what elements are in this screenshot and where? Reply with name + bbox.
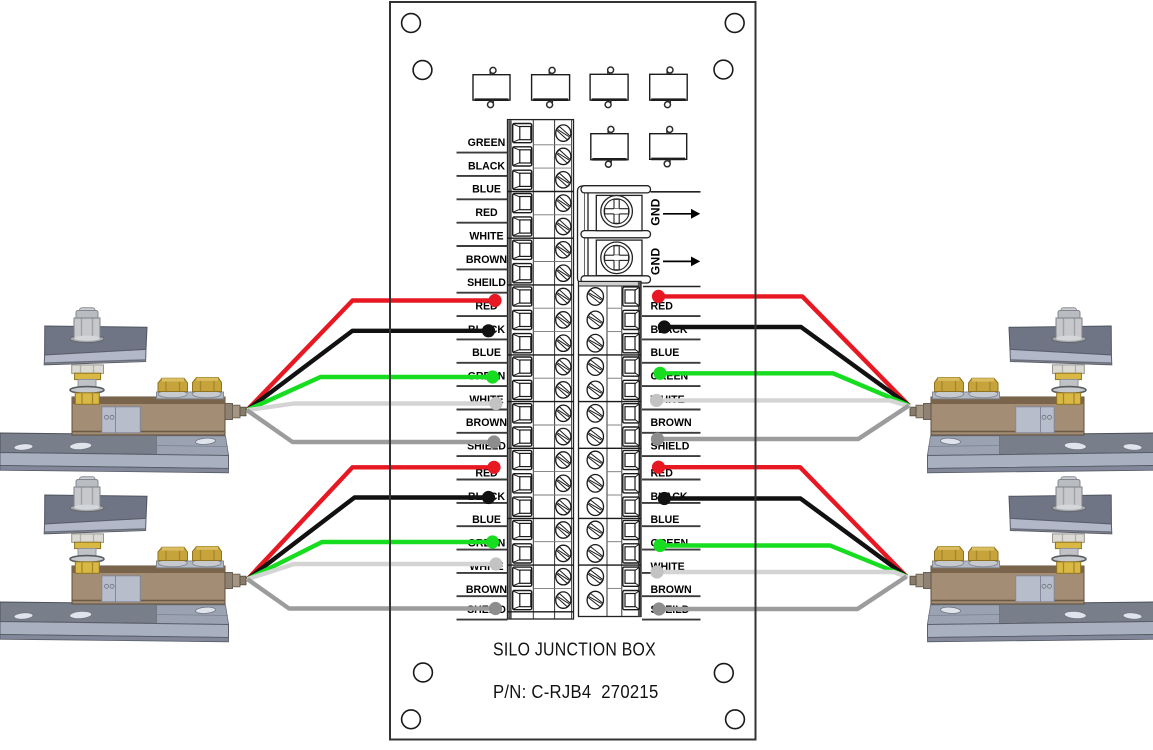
node label BLACK (left row 9) [457,324,508,340]
terminal TB1-12 clamp [513,380,532,399]
svg-text:BROWN: BROWN [651,417,692,429]
node label SHIELD (right row 14) [642,441,701,457]
component box K6 [650,126,687,166]
terminal TB1-5 screw [556,218,571,234]
node label RED (right row 8) [642,301,701,317]
node label GREEN (right row 11) [642,371,701,387]
terminal TB1-13 screw [556,405,571,421]
wire LC4 GREEN to TB2-11 [653,539,906,577]
load cell LC1 (upper left) [0,308,246,473]
wire LC4 RED to TB2-8 [652,461,907,577]
wire LC3 WHITE to TB2-5 [650,394,911,407]
terminal TB2-1 screw [587,288,603,306]
terminal TB1-2 clamp [513,147,532,166]
wire LC3 SHIELD to TB2-7 [651,406,909,446]
svg-text:BROWN: BROWN [466,417,507,429]
component box K2 [532,67,570,107]
terminal TB1-6 screw [556,242,571,258]
node label RED (left row 8) [457,301,508,317]
svg-text:BLUE: BLUE [472,184,501,196]
node label BROWN (left row 13) [457,417,508,433]
terminal TB1-10 clamp [513,334,532,353]
svg-text:BLUE: BLUE [651,347,680,359]
svg-text:BLACK: BLACK [468,160,505,172]
component box K3 [590,67,628,108]
terminal TB2-6 clamp [623,404,640,423]
mounting hole lower-right inner [714,664,733,683]
terminal TB2-6 screw [587,405,603,423]
node label BROWN (left row 6) [457,254,508,270]
terminal TB1-5 clamp [513,217,532,236]
terminal TB2-10 screw [587,498,603,516]
terminal TB1-10 screw [556,335,571,351]
terminal TB2-12 clamp [623,544,640,563]
node label BLACK (left row 16) [457,491,508,503]
wire gnd rail top lead [651,191,701,193]
wire LC3 RED to TB2-1 [652,290,909,406]
node label BLACK (right row 16) [642,491,701,503]
load cell LC4 (lower right) [910,477,1153,642]
terminal TB2-4 screw [587,358,603,376]
terminal TB1-7 clamp [513,264,532,283]
terminal TB2-4 clamp [623,357,640,376]
mounting hole bottom-left corner [402,710,421,729]
node label WHITE (right row 19) [642,561,701,573]
terminal TB2-9 screw [587,475,603,493]
load cell LC2 (lower left) [0,477,246,642]
junction box panel outline [390,2,756,740]
terminal TB1-14 clamp [513,427,532,446]
terminal TB2-11 clamp [623,520,640,539]
terminal TB1-8 screw [556,288,571,304]
terminal TB2-1 clamp [623,287,640,306]
svg-text:BLUE: BLUE [472,347,501,359]
svg-text:GND: GND [649,198,663,226]
node label WHITE (right row 12) [642,394,701,410]
terminal TB1-9 clamp [513,310,532,329]
terminal TB2-13 clamp [623,567,640,586]
svg-text:SHEILD: SHEILD [467,277,506,289]
node label BLUE (right row 17) [642,514,701,526]
node label GREEN (left row 11) [457,371,508,387]
mounting hole upper-left inner [413,61,432,80]
terminal TB1-14 screw [556,428,571,444]
node label SHEILD (right row 21) [642,604,701,620]
node label BROWN (right row 20) [642,584,701,596]
terminal strip TB2 (right, 14 terminals) [579,282,642,617]
component box K1 [473,67,510,107]
terminal TB1-15 screw [556,452,571,468]
terminal TB1-12 screw [556,382,571,398]
terminal TB2-12 screw [587,545,603,563]
terminal TB2-3 clamp [623,334,640,353]
terminal TB1-16 clamp [513,474,532,493]
node label BLUE (left row 17) [457,514,508,526]
wire LC3 GREEN to TB2-4 [653,367,909,406]
terminal TB2-2 screw [587,311,603,329]
node label GREEN (right row 18) [642,538,701,550]
terminal TB2-11 screw [587,521,603,539]
load cell LC3 (upper right) [910,308,1153,473]
terminal TB1-11 clamp [513,357,532,376]
terminal TB2-14 screw [587,591,603,609]
svg-text:GND: GND [649,247,663,275]
terminal TB1-16 screw [556,475,571,491]
node label GREEN (left row 18) [457,538,508,550]
terminal TB1-8 clamp [513,287,532,306]
terminal TB2-9 clamp [623,474,640,493]
node label RED (left row 4) [457,207,508,223]
terminal TB2-14 clamp [623,591,640,610]
terminal TB2-5 screw [587,381,603,399]
node label WHITE (left row 5) [457,230,508,246]
wire LC4 SHIELD to TB2-14 [652,577,906,616]
terminal TB2-5 clamp [623,380,640,399]
node label SHEILD (left row 21) [457,604,508,620]
node label BLUE (right row 10) [642,347,701,363]
terminal TB2-10 clamp [623,497,640,516]
terminal TB1-6 clamp [513,240,532,259]
node label BROWN (right row 13) [642,417,701,433]
terminal TB1-1 screw [556,125,571,141]
net label GND (upper) [649,198,701,226]
node label RED (right row 15) [642,467,701,479]
ground rail frame [578,186,651,283]
node label SHEILD (left row 7) [457,277,508,293]
wire LC2 GREEN to TB1-18 [248,535,500,579]
mounting hole lower-left inner [414,663,433,682]
wire LC1 GREEN to TB1-11 [247,370,499,410]
node label SHIELD (left row 14) [457,441,508,457]
node label GREEN (left row 1) [457,137,508,153]
svg-text:RED: RED [651,301,674,313]
component box K4 [650,67,688,108]
terminal TB1-4 clamp [513,194,532,213]
wire LC4 BLACK to TB2-9 [658,492,907,577]
wire LC2 SHIELD to TB1-21 [248,579,503,615]
svg-text:GREEN: GREEN [468,137,506,149]
terminal TB2-7 clamp [623,427,640,446]
terminal TB2-13 screw [587,568,603,586]
svg-text:SILO JUNCTION BOX: SILO JUNCTION BOX [493,640,656,660]
terminal TB1-1 clamp [513,124,532,143]
wire LC1 SHIELD to TB1-14 [247,410,501,448]
wire LC4 WHITE to TB2-12 [650,565,908,578]
node label WHITE (left row 12) [457,394,508,410]
mounting hole top-left corner [402,14,421,33]
ground lug GND1 [596,195,642,230]
node label BLUE (left row 10) [457,347,508,363]
wire LC2 BLACK to TB1-16 [248,491,496,579]
terminal TB1-19 clamp [513,544,532,563]
wire LC1 BLACK to TB1-9 [247,324,495,410]
terminal strip TB1 (left, 21 terminals) [508,120,574,619]
terminal TB1-18 screw [556,522,571,538]
component box K5 [591,126,628,167]
node label WHITE (left row 19) [457,561,508,573]
terminal TB1-13 clamp [513,404,532,423]
svg-text:WHITE: WHITE [469,230,503,242]
svg-text:P/N: C-RJB4 270215: P/N: C-RJB4 270215 [493,682,659,702]
terminal TB1-4 screw [556,195,571,211]
wire LC2 WHITE to TB1-19 [248,557,503,579]
terminal TB1-3 screw [556,172,571,188]
terminal TB2-8 clamp [623,450,640,469]
svg-text:BLUE: BLUE [472,514,501,526]
wire LC3 BLACK to TB2-2 [658,320,909,405]
wire LC1 RED to TB1-8 [247,294,502,410]
mounting hole bottom-right corner [726,710,745,729]
node label BLACK (left row 2) [457,160,508,176]
terminal TB1-21 clamp [513,591,532,610]
terminal TB1-2 screw [556,148,571,164]
terminal TB2-3 screw [587,334,603,352]
svg-text:BROWN: BROWN [466,254,507,266]
terminal TB1-9 screw [556,312,571,328]
svg-text:BROWN: BROWN [466,584,507,596]
ground lug GND2 [596,240,642,276]
svg-text:BLUE: BLUE [651,514,680,526]
mounting hole upper-right inner [714,60,733,79]
terminal TB1-11 screw [556,358,571,374]
terminal TB1-21 screw [556,592,571,608]
node label RED (left row 15) [457,467,508,479]
terminal TB1-17 screw [556,499,571,515]
terminal TB2-7 screw [587,428,603,446]
terminal TB1-18 clamp [513,520,532,539]
net label GND (lower) [649,247,701,275]
wire LC2 RED to TB1-15 [248,461,501,580]
node label BLUE (left row 3) [457,184,508,200]
terminal TB1-20 screw [556,569,571,585]
mounting hole top-right corner [725,14,744,33]
junction box panel [390,2,756,740]
terminal TB1-20 clamp [513,567,532,586]
terminal TB1-19 screw [556,545,571,561]
terminal TB1-15 clamp [513,450,532,469]
svg-text:RED: RED [475,207,498,219]
node label BLACK (right row 9) [642,324,701,340]
wire LC1 WHITE to TB1-12 [247,397,503,410]
terminal TB1-7 screw [556,265,571,281]
svg-text:BROWN: BROWN [651,584,692,596]
terminal TB2-2 clamp [623,310,640,329]
terminal TB1-3 clamp [513,170,532,189]
node label BROWN (left row 20) [457,584,508,596]
wire gnd rail bottom lead [643,286,701,288]
terminal TB2-8 screw [587,451,603,469]
terminal TB1-17 clamp [513,497,532,516]
